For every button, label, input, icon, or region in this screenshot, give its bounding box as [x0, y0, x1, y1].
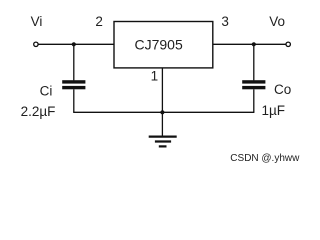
wire Co to bottom rail [253, 89, 255, 112]
svg-text:CJ7905: CJ7905 [135, 37, 183, 53]
svg-text:Ci: Ci [40, 83, 53, 98]
node junction input [72, 42, 76, 46]
ground [149, 137, 177, 147]
svg-text:3: 3 [221, 14, 229, 29]
svg-text:2.2µF: 2.2µF [21, 104, 56, 119]
regulator U1 CJ7905 [114, 22, 213, 68]
svg-text:Vo: Vo [269, 14, 285, 29]
node junction ground [160, 110, 164, 114]
wire Ci to bottom rail [73, 89, 75, 112]
wire bottom rail [73, 111, 254, 113]
terminal Vo [286, 42, 290, 46]
capacitor Co [242, 80, 265, 89]
wire regulator output to Vo [213, 43, 286, 45]
svg-text:CSDN @.yhww: CSDN @.yhww [230, 153, 300, 164]
wire output node down to Co [253, 44, 255, 80]
wire regulator pin 1 to ground [161, 68, 163, 137]
terminal Vi [34, 42, 38, 46]
svg-text:2: 2 [95, 14, 103, 29]
svg-text:Vi: Vi [31, 14, 43, 29]
svg-text:Co: Co [274, 82, 291, 97]
capacitor Ci [62, 80, 85, 89]
wire input node down to Ci [73, 44, 75, 80]
wire Vi to regulator input [38, 43, 114, 45]
svg-text:1µF: 1µF [262, 103, 286, 118]
node junction output [252, 42, 256, 46]
svg-text:1: 1 [151, 69, 159, 84]
